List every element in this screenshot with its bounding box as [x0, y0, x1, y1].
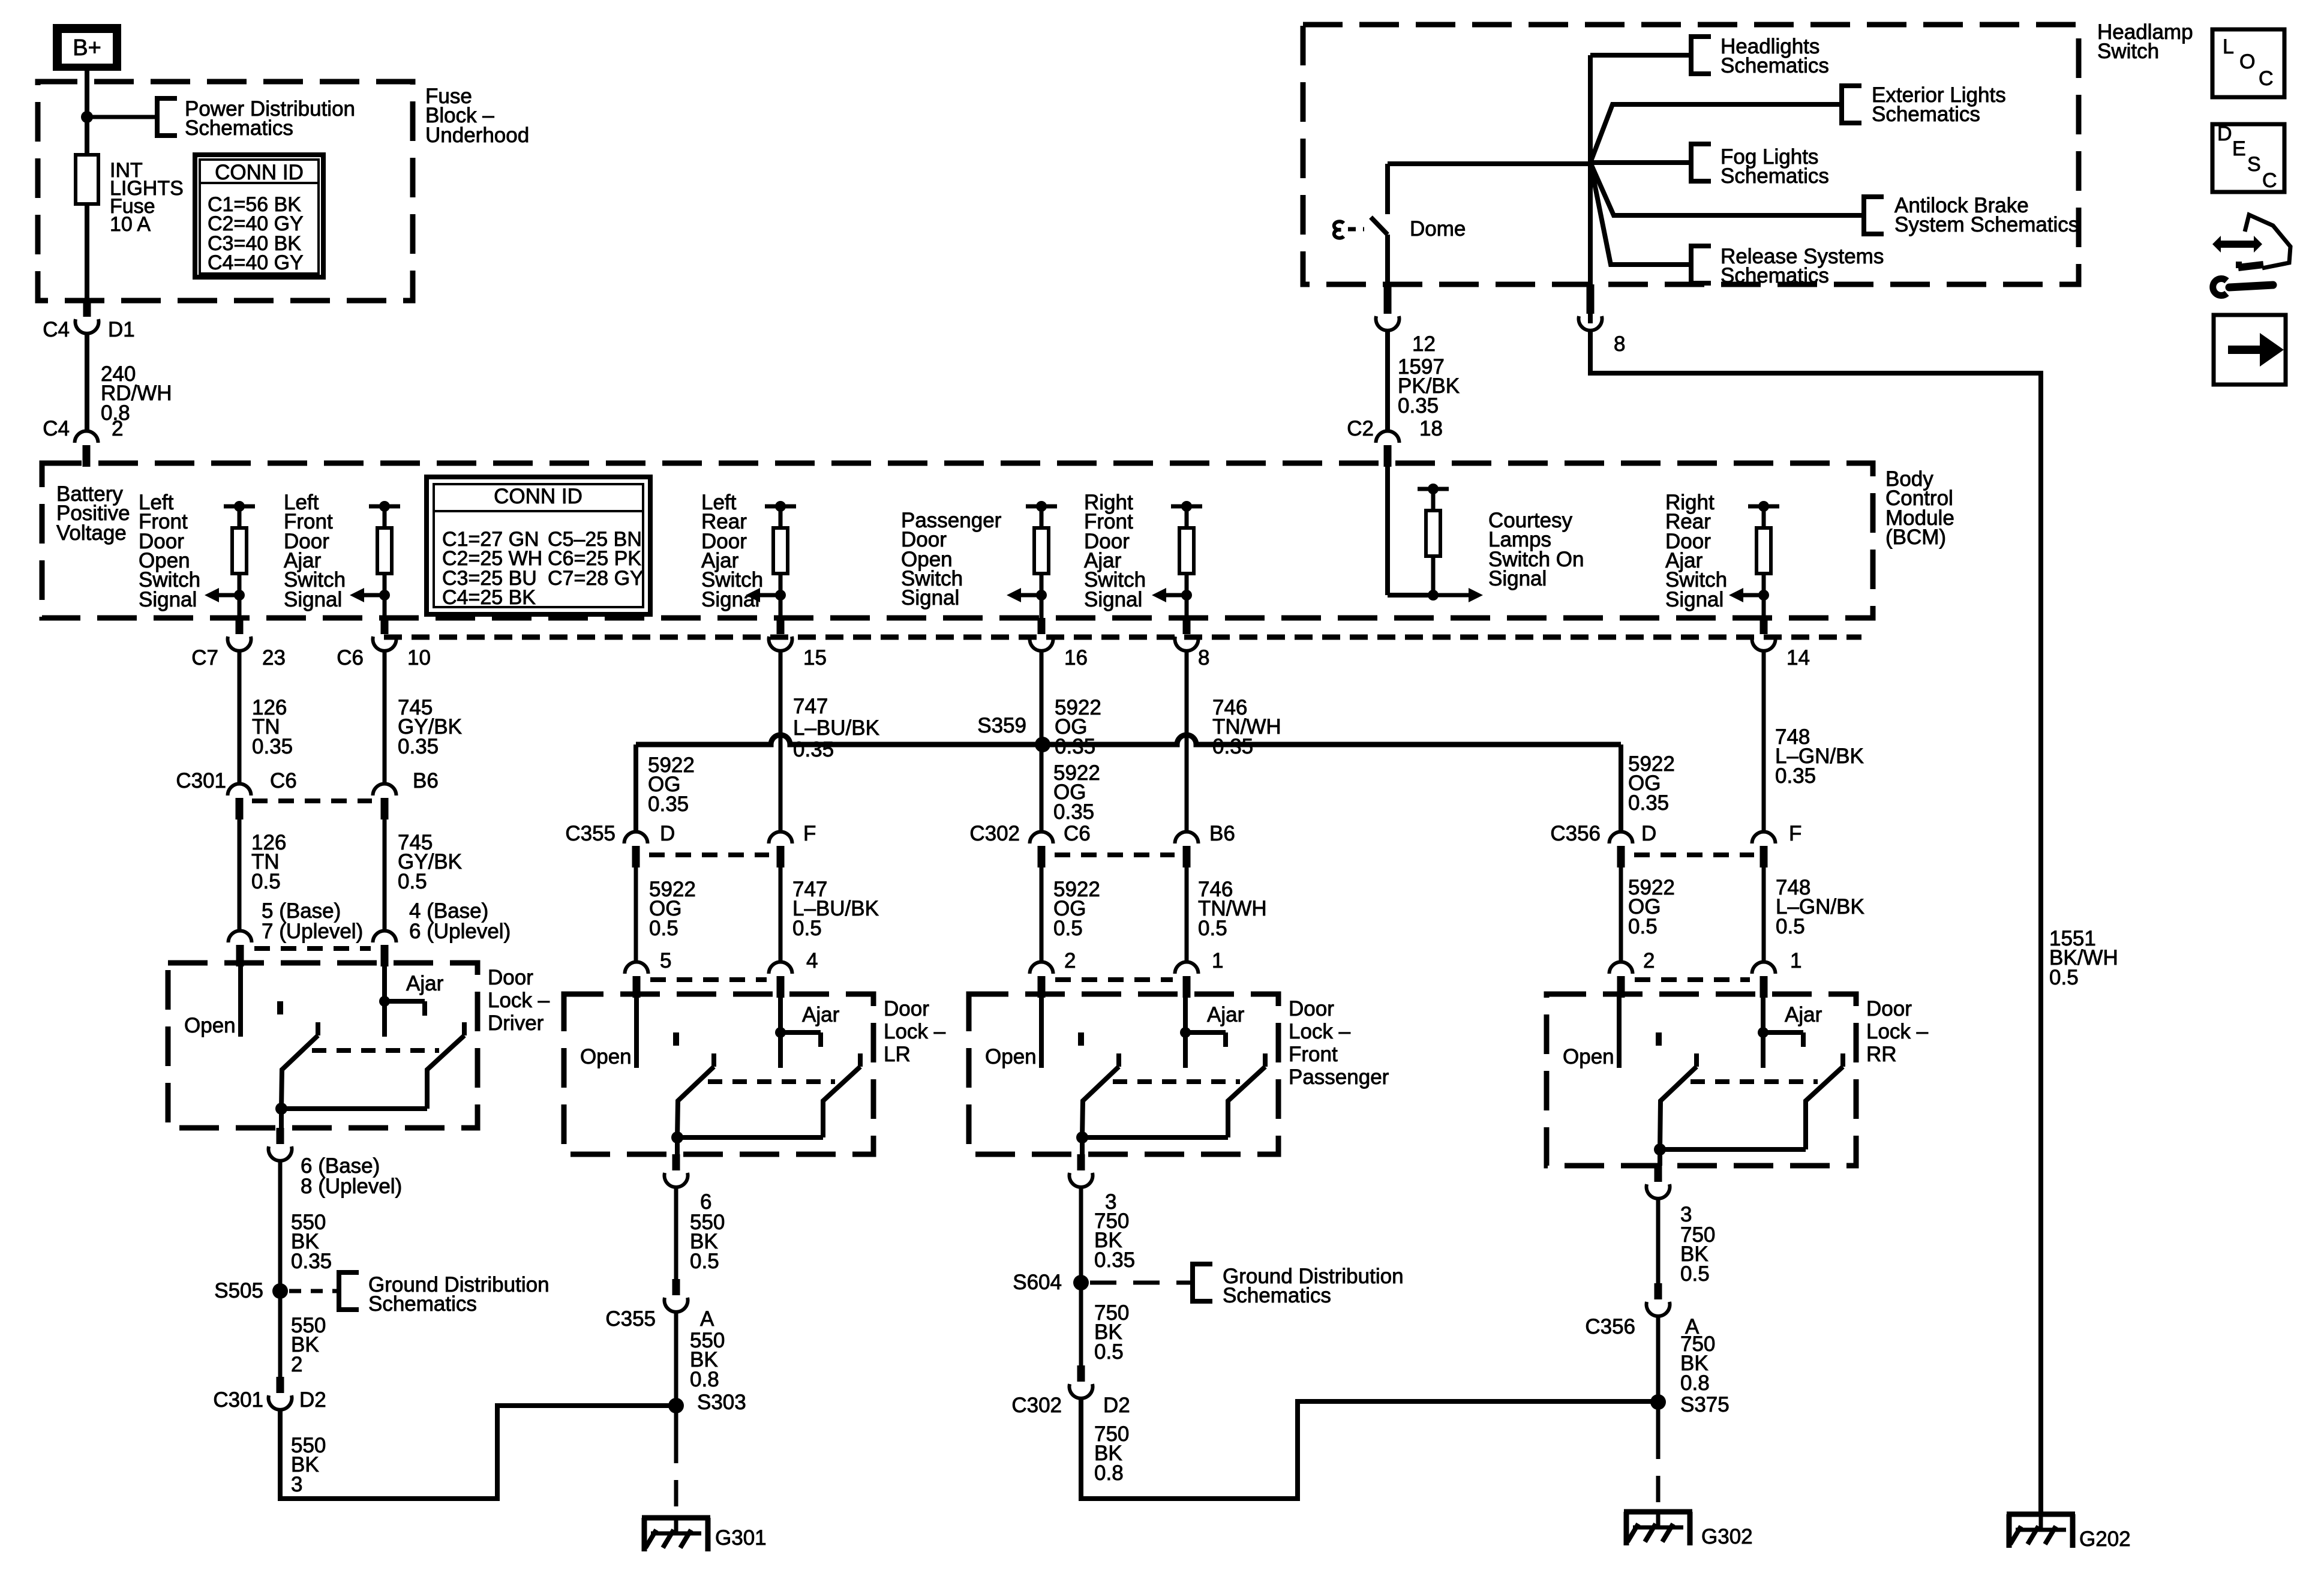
connector door lock RR pin 1 — [1752, 962, 1776, 974]
svg-text:S375: S375 — [1680, 1393, 1730, 1416]
svg-text:C2: C2 — [1347, 417, 1374, 440]
svg-text:(BCM): (BCM) — [1885, 526, 1946, 549]
switch blade open (RR) — [1694, 1053, 1699, 1067]
svg-text:G301: G301 — [715, 1526, 767, 1550]
schematic bracket Release Systems — [1691, 246, 1711, 283]
svg-text:7 (Uplevel): 7 (Uplevel) — [262, 920, 363, 943]
door lock switch box: Front Passenger — [969, 994, 1278, 1154]
wire S375 to ground — [1656, 1402, 1661, 1433]
svg-text:Signal: Signal — [901, 586, 959, 610]
connector headlamp switch pin 8 — [1587, 284, 1595, 314]
connector headlamp switch pin 12 — [1384, 284, 1392, 314]
svg-text:12: 12 — [1412, 332, 1436, 356]
svg-text:0.35: 0.35 — [1055, 735, 1095, 758]
svg-text:0.8: 0.8 — [1680, 1371, 1710, 1395]
wire 550 BK 3 to S303 — [280, 1406, 676, 1499]
svg-text:0.35: 0.35 — [1212, 735, 1253, 758]
svg-text:Schematics: Schematics — [185, 116, 293, 140]
svg-text:0.35: 0.35 — [1775, 764, 1816, 788]
svg-text:0.35: 0.35 — [648, 792, 689, 816]
connector BCM pin 16 — [1038, 618, 1046, 634]
svg-text:0.5: 0.5 — [1680, 1262, 1710, 1286]
connector C2 pin 18 — [1376, 431, 1400, 443]
switch blade ajar (RR) — [1840, 1053, 1845, 1067]
connector C302 pin D2 — [1077, 1365, 1085, 1382]
svg-text:Schematics: Schematics — [1721, 264, 1829, 287]
switch blade open (Driver) — [316, 1022, 320, 1035]
wire ajar input (LR) — [778, 994, 783, 1068]
svg-text:C4: C4 — [43, 417, 70, 440]
wire 750 BK 0.5 — [1079, 1283, 1083, 1365]
wire 126 TN 0.5 — [238, 818, 242, 930]
BCM input resistor (x=2940) — [1748, 505, 1779, 509]
wire resistor to BCM edge (x=1978) — [1185, 595, 1189, 618]
svg-text:0.5: 0.5 — [2049, 966, 2079, 989]
wire to headlights bracket — [1590, 53, 1691, 58]
node courtesy lamps junction — [1428, 590, 1439, 601]
svg-text:Underhood: Underhood — [425, 124, 529, 147]
connector BCM pin 15 — [777, 618, 785, 634]
svg-text:0.35: 0.35 — [1398, 394, 1439, 418]
svg-text:G202: G202 — [2079, 1527, 2131, 1551]
svg-text:10: 10 — [407, 646, 431, 670]
svg-text:8: 8 — [1198, 646, 1209, 670]
door lock switch box: LR — [564, 994, 873, 1154]
wire ajar input (Driver) — [382, 963, 387, 1037]
svg-text:D: D — [2217, 122, 2232, 145]
svg-text:B+: B+ — [73, 35, 101, 61]
ground G302 — [1624, 1509, 1692, 1515]
svg-text:0.5: 0.5 — [1053, 917, 1083, 940]
wire resistor to BCM edge (x=1736) — [1040, 595, 1044, 618]
switch blade open (Front Passenger) — [1116, 1053, 1121, 1067]
svg-text:1: 1 — [1212, 949, 1223, 972]
svg-text:D2: D2 — [299, 1388, 326, 1412]
wire 5922 OG 0.5 (C302) — [1040, 866, 1044, 962]
svg-text:Ajar: Ajar — [802, 1003, 840, 1026]
svg-text:18: 18 — [1419, 417, 1443, 440]
wire 5922 OG 0.5 (C356) — [1619, 866, 1623, 962]
svg-text:6 (Uplevel): 6 (Uplevel) — [409, 920, 511, 943]
svg-text:2: 2 — [1064, 949, 1076, 972]
svg-text:23: 23 — [262, 646, 286, 670]
svg-text:S359: S359 — [977, 714, 1026, 737]
wire 126 TN 0.35 — [238, 650, 242, 784]
connector door lock FP output pin 3 — [1077, 1154, 1085, 1170]
fixed contact open (RR) — [1656, 1032, 1662, 1046]
connector door lock driver pin 5/7 — [229, 931, 252, 943]
BCM input resistor (x=641) — [369, 505, 400, 509]
svg-text:D: D — [1641, 822, 1656, 845]
wire resistor to BCM edge (x=399) — [238, 595, 242, 618]
wire fanout vertical to headlights — [1588, 55, 1593, 323]
wire 550 BK 0.8 — [674, 1311, 678, 1406]
wire open contact (RR) — [1617, 994, 1622, 1068]
svg-text:0.35: 0.35 — [398, 735, 439, 758]
svg-text:2: 2 — [1643, 949, 1655, 972]
svg-text:D: D — [660, 822, 675, 845]
svg-text:O: O — [2239, 50, 2255, 73]
svg-text:RR: RR — [1866, 1043, 1897, 1066]
connector BCM pin 8 — [1183, 618, 1191, 634]
svg-text:A: A — [700, 1307, 714, 1331]
svg-text:C356: C356 — [1550, 822, 1601, 845]
schematic bracket Ground Distribution (S604) — [1193, 1264, 1212, 1301]
svg-text:C356: C356 — [1585, 1315, 1635, 1338]
wire to release systems — [1590, 163, 1691, 265]
svg-text:747: 747 — [793, 695, 828, 718]
svg-text:Door: Door — [488, 966, 533, 989]
svg-text:F: F — [1789, 822, 1801, 845]
svg-text:0.35: 0.35 — [252, 735, 293, 758]
icon box LOC — [2212, 29, 2284, 97]
svg-text:C302: C302 — [1011, 1394, 1062, 1417]
connector C355 pin F — [769, 832, 792, 844]
svg-text:C355: C355 — [565, 822, 615, 845]
svg-text:S505: S505 — [214, 1279, 263, 1302]
svg-text:0.5: 0.5 — [649, 917, 678, 940]
wire to exterior lights — [1590, 104, 1842, 163]
svg-text:C6: C6 — [1064, 822, 1091, 845]
svg-text:15: 15 — [803, 646, 827, 670]
svg-text:Ajar: Ajar — [406, 972, 444, 995]
connector C4 pin D1 — [83, 301, 91, 317]
Body Control Module dashed box — [42, 463, 1873, 618]
wire open contact (Front Passenger) — [1039, 994, 1044, 1068]
connector door lock LR pin 5 — [625, 962, 648, 974]
connector door lock RR pin 2 — [1610, 962, 1633, 974]
connector pair dashed link door lock RR — [1635, 977, 1750, 982]
svg-text:C302: C302 — [969, 822, 1020, 845]
svg-text:L: L — [2223, 35, 2234, 58]
fuse block underhood dashed box — [38, 82, 413, 301]
schematic reference bracket: Power Distribution — [157, 98, 177, 136]
wire to antilock brake — [1590, 163, 1864, 215]
svg-text:B6: B6 — [413, 769, 439, 792]
wire switch common (Front Passenger) — [1082, 1135, 1228, 1140]
connector pair dashed link C355 — [649, 852, 769, 857]
svg-text:C: C — [2262, 169, 2277, 192]
connector pair dashed link C302 — [1055, 852, 1175, 857]
fixed contact open (Driver) — [277, 1001, 283, 1014]
switch blade open (LR) — [711, 1053, 716, 1067]
svg-text:C4=25 BK: C4=25 BK — [442, 586, 536, 609]
svg-text:10 A: 10 A — [110, 213, 151, 236]
svg-text:0.35: 0.35 — [1094, 1248, 1135, 1272]
svg-text:0.35: 0.35 — [793, 738, 834, 761]
connector door lock driver output pin 6/8 — [277, 1128, 284, 1144]
wire fuse to connector C4 — [85, 204, 89, 303]
icon box DESC — [2212, 124, 2284, 192]
svg-text:0.5: 0.5 — [1776, 915, 1805, 938]
svg-text:Door: Door — [884, 997, 929, 1020]
svg-text:Open: Open — [985, 1045, 1037, 1068]
svg-text:Lock –: Lock – — [488, 989, 550, 1012]
connector C356 pin F — [1752, 832, 1776, 844]
BCM input resistor (x=1736) — [1026, 505, 1057, 509]
svg-text:Signal: Signal — [139, 588, 197, 611]
wire S303 to ground — [674, 1406, 678, 1437]
dashed reference wire S505 — [289, 1289, 339, 1293]
svg-text:0.5: 0.5 — [1094, 1340, 1124, 1364]
connector C302 pin C6 — [1030, 832, 1053, 844]
svg-text:4: 4 — [806, 949, 818, 972]
splice S303 — [668, 1398, 684, 1413]
switch blade ajar (Driver) — [462, 1022, 467, 1035]
svg-text:C4: C4 — [43, 318, 70, 341]
door lock switch box: RR — [1547, 994, 1856, 1166]
connector C356 pin D — [1610, 832, 1633, 844]
wire resistor to BCM edge (x=1301) — [779, 595, 783, 618]
wire switch common (LR) — [677, 1135, 823, 1140]
svg-text:Lock –: Lock – — [884, 1020, 946, 1043]
icon service info (arrow and wrench) — [2212, 236, 2262, 253]
connector C301 pin C6 — [228, 784, 251, 796]
connector BCM pin 14 — [1760, 618, 1768, 634]
wire switch common (Driver) — [281, 1106, 427, 1111]
splice S505 — [272, 1283, 288, 1299]
connector C302 pin B6 — [1175, 832, 1199, 844]
wire 550 BK 0.5 — [674, 1186, 678, 1279]
svg-text:C7=28 GY: C7=28 GY — [548, 567, 644, 590]
wire open contact (Driver) — [238, 963, 243, 1037]
svg-text:0.5: 0.5 — [398, 870, 427, 893]
connector pair dashed link door lock LR — [650, 977, 767, 982]
connector pair dashed link C301 — [252, 798, 372, 803]
BCM signal arrow and node (x=1301) — [775, 590, 786, 601]
svg-text:Door: Door — [1866, 997, 1912, 1020]
svg-text:C355: C355 — [605, 1307, 656, 1331]
svg-text:16: 16 — [1064, 646, 1088, 670]
svg-text:C: C — [2259, 67, 2274, 90]
svg-text:Switch: Switch — [2097, 40, 2159, 63]
fixed contact open (LR) — [673, 1032, 679, 1046]
connector BCM pin 23 — [236, 618, 244, 634]
connector door lock LR output pin 6 — [672, 1154, 680, 1170]
splice S375 — [1650, 1394, 1666, 1410]
wire to fog lights bracket — [1590, 160, 1691, 165]
node switch common (RR) — [1654, 1143, 1666, 1155]
svg-text:C7: C7 — [191, 646, 218, 670]
BCM signal arrow and node (x=1978) — [1181, 590, 1192, 601]
svg-text:14: 14 — [1786, 646, 1810, 670]
wire ajar branch (Front Passenger) — [1185, 1030, 1226, 1035]
svg-text:Lock –: Lock – — [1866, 1020, 1929, 1043]
fuse F: INT LIGHTS 10 A — [76, 155, 98, 204]
svg-text:CONN ID: CONN ID — [215, 161, 304, 184]
node junction on B+ feed — [81, 111, 93, 123]
BCM signal arrow and node (x=2940) — [1758, 590, 1769, 601]
wire switch common (RR) — [1660, 1147, 1806, 1152]
node ajar branch (RR) — [1758, 1027, 1768, 1038]
BCM signal arrow and node (x=399) — [234, 590, 245, 601]
wire ajar branch (LR) — [780, 1030, 821, 1035]
connector door lock FP pin 2 — [1030, 962, 1053, 974]
svg-text:Ajar: Ajar — [1207, 1003, 1245, 1026]
schematic bracket Antilock Brake — [1864, 197, 1884, 234]
ground G301 — [642, 1515, 710, 1521]
wire dome feed horizontal — [1388, 161, 1590, 166]
connector door lock FP pin 1 — [1175, 962, 1199, 974]
svg-text:Open: Open — [1563, 1045, 1614, 1068]
wire ajar branch (Driver) — [385, 999, 425, 1004]
node switch common (Front Passenger) — [1076, 1131, 1088, 1143]
wire 748 L-GN/BK 0.5 — [1762, 866, 1766, 962]
wire 745 GY/BK 0.35 — [383, 650, 387, 784]
svg-text:5: 5 — [660, 949, 671, 972]
wire dome lower to pin 12 — [1385, 235, 1390, 284]
BCM input resistor (x=399) — [224, 505, 255, 509]
svg-text:Schematics: Schematics — [1721, 164, 1829, 188]
wire to courtesy lamps node — [1388, 593, 1433, 598]
headlamp switch dashed box — [1303, 25, 2079, 284]
svg-text:0.5: 0.5 — [792, 917, 822, 940]
wire ajar branch (RR) — [1763, 1030, 1803, 1035]
svg-text:3: 3 — [291, 1473, 302, 1496]
svg-text:LR: LR — [884, 1043, 911, 1066]
svg-text:Open: Open — [184, 1014, 236, 1037]
connector C356 pin A — [1655, 1283, 1662, 1299]
switch gang dashed link (Driver) — [312, 1048, 439, 1053]
dashed reference wire S604 — [1090, 1281, 1193, 1285]
fixed contact open (Front Passenger) — [1078, 1032, 1084, 1046]
schematic bracket Headlights — [1691, 37, 1711, 74]
svg-text:0.35: 0.35 — [291, 1250, 332, 1273]
wire 5922 OG 0.35 (C356 D drop) — [1619, 745, 1623, 831]
svg-text:Lock –: Lock – — [1289, 1020, 1351, 1043]
switch gang dashed link (RR) — [1691, 1079, 1818, 1084]
svg-text:Signal: Signal — [1488, 567, 1547, 590]
dome switch actuator symbol — [1334, 221, 1344, 238]
connector C301 pin B6 — [373, 784, 397, 796]
svg-text:C301: C301 — [176, 769, 226, 792]
svg-text:8: 8 — [1614, 332, 1625, 356]
connector C301 pin D2 — [277, 1377, 284, 1393]
table CONN ID (fuse block) — [195, 155, 323, 277]
wire 550 BK 0.35 — [278, 1160, 283, 1291]
wire 746 TN/WH 0.5 — [1185, 866, 1189, 962]
svg-text:0.8: 0.8 — [1094, 1461, 1124, 1485]
wire resistor to BCM edge (x=2940) — [1762, 595, 1766, 618]
wire B+ to fuse — [85, 70, 89, 155]
svg-text:Ajar: Ajar — [1785, 1003, 1822, 1026]
svg-text:8 (Uplevel): 8 (Uplevel) — [301, 1175, 402, 1198]
connector door lock LR pin 4 — [769, 962, 792, 974]
BCM signal arrow and node (x=1736) — [1036, 590, 1047, 601]
node ajar branch (Front Passenger) — [1180, 1027, 1191, 1038]
wire 745 GY/BK 0.5 — [383, 818, 387, 930]
wire 747 L-BU/BK 0.35 — [779, 650, 783, 831]
svg-text:Schematics: Schematics — [1872, 103, 1980, 126]
wire 750 BK 0.5 (RR) — [1656, 1197, 1661, 1283]
wire 750 BK 0.35 — [1079, 1186, 1083, 1283]
wire 748 L-GN/BK 0.35 — [1762, 650, 1766, 831]
splice S604 — [1073, 1275, 1089, 1290]
svg-text:S303: S303 — [697, 1391, 746, 1414]
svg-text:0.5: 0.5 — [251, 870, 281, 893]
svg-text:1: 1 — [1790, 949, 1801, 972]
svg-text:C6: C6 — [337, 646, 364, 670]
wire pin8 to G202 (1551 BK/WH) — [1590, 329, 2041, 1514]
svg-text:Voltage: Voltage — [56, 521, 127, 545]
switch gang dashed link (Front Passenger) — [1113, 1079, 1240, 1084]
svg-text:CONN ID: CONN ID — [494, 485, 582, 508]
svg-text:S: S — [2247, 153, 2261, 176]
wire 750 BK 0.8 to S375 — [1081, 1397, 1658, 1499]
connector BCM pin 10 — [381, 618, 389, 634]
svg-text:2: 2 — [291, 1353, 302, 1376]
svg-text:Signal: Signal — [701, 588, 759, 611]
schematic bracket Fog Lights — [1691, 144, 1711, 181]
svg-text:L–BU/BK: L–BU/BK — [793, 716, 879, 740]
wire dome upper contact — [1385, 164, 1390, 214]
switch blade ajar (Front Passenger) — [1263, 1053, 1268, 1067]
wire open contact (LR) — [634, 994, 639, 1068]
svg-text:0.5: 0.5 — [690, 1250, 719, 1273]
switch gang dashed link (LR) — [708, 1079, 835, 1084]
switch blade: dome — [1371, 217, 1388, 235]
svg-text:D2: D2 — [1103, 1394, 1130, 1417]
icon box forward arrow — [2214, 315, 2286, 385]
svg-text:B6: B6 — [1209, 822, 1235, 845]
power symbol B+ (battery positive) — [53, 24, 121, 71]
svg-text:S604: S604 — [1013, 1271, 1062, 1294]
svg-text:2: 2 — [112, 417, 123, 440]
svg-text:Passenger: Passenger — [1289, 1065, 1389, 1089]
connector door lock RR output pin 3 — [1655, 1166, 1662, 1182]
BCM connector face dashed line — [384, 635, 1861, 640]
svg-text:Door: Door — [1289, 997, 1334, 1020]
svg-text:Front: Front — [1289, 1043, 1338, 1066]
svg-text:Signal: Signal — [1084, 588, 1142, 611]
door lock switch box: Driver — [168, 963, 478, 1128]
svg-text:Signal: Signal — [1665, 588, 1724, 611]
svg-text:Driver: Driver — [488, 1011, 544, 1035]
wire 5922 OG 0.35 (C355 D drop) — [633, 745, 638, 831]
connector pair dashed link C356 — [1634, 852, 1754, 857]
wire to power distribution bracket — [87, 115, 157, 119]
svg-text:Schematics: Schematics — [1223, 1284, 1331, 1307]
connector C355 pin A — [672, 1279, 680, 1295]
svg-text:0.35: 0.35 — [1628, 791, 1669, 815]
svg-text:Schematics: Schematics — [1721, 54, 1829, 77]
svg-text:System Schematics: System Schematics — [1894, 213, 2079, 236]
schematic bracket Ground Distribution (S505) — [339, 1272, 359, 1310]
svg-text:C301: C301 — [213, 1388, 263, 1412]
connector pair dashed link door lock driver — [254, 946, 371, 951]
connector C355 pin D — [624, 832, 648, 844]
svg-text:0.35: 0.35 — [1053, 800, 1094, 824]
BCM input resistor (x=1301) — [765, 505, 796, 509]
wire 240 RD/WH 0.8 — [85, 334, 89, 431]
wire 550 BK 2 — [278, 1291, 283, 1377]
BCM input resistor (x=1978) — [1171, 505, 1202, 509]
connector pair dashed link door lock FP — [1055, 977, 1173, 982]
connector door lock driver pin 4/6 — [373, 931, 397, 943]
connector C4 pin 2 — [75, 431, 98, 443]
svg-text:C4=40 GY: C4=40 GY — [208, 251, 304, 274]
BCM signal arrow and node (x=641) — [379, 590, 390, 601]
wire resistor to BCM edge (x=641) — [383, 595, 387, 618]
switch blade ajar (LR) — [858, 1053, 863, 1067]
svg-text:G302: G302 — [1701, 1525, 1753, 1548]
svg-text:0.5: 0.5 — [1628, 915, 1658, 938]
courtesy lamps signal arrow — [1433, 593, 1471, 598]
table CONN ID (BCM) — [427, 477, 650, 614]
svg-text:F: F — [803, 822, 816, 845]
wire 1597 PK/BK 0.35 — [1385, 329, 1390, 432]
wire 746 TN/WH 0.35 — [1185, 650, 1189, 831]
